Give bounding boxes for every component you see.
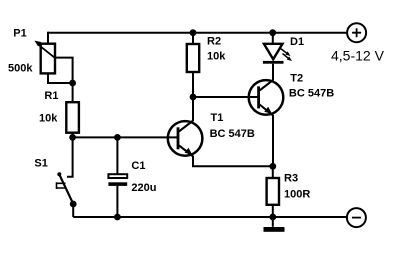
wire R1 bottom to S1: [67, 133, 73, 177]
svg-text:100R: 100R: [284, 188, 310, 200]
svg-text:P1: P1: [13, 28, 26, 40]
svg-text:D1: D1: [290, 36, 304, 48]
node E junction dot: [269, 163, 276, 170]
junction dot D1 at top rail: [269, 29, 276, 36]
svg-text:BC 547B: BC 547B: [289, 88, 334, 100]
switch S1 actuator: [57, 182, 67, 189]
node D junction dot: [190, 94, 197, 101]
terminal plus: [347, 23, 366, 42]
wire T2 emitter to node E: [272, 115, 274, 166]
svg-text:500k: 500k: [8, 62, 33, 74]
svg-text:T1: T1: [211, 112, 224, 124]
svg-text:R1: R1: [44, 90, 58, 102]
wire T1 collector up to node D: [192, 97, 194, 121]
node B junction dot (base wire tee): [69, 134, 76, 141]
wire R3 bottom to bottom rail: [272, 205, 274, 217]
node A junction dot: [69, 80, 76, 87]
LED D1: [263, 44, 292, 64]
ground: [264, 217, 285, 232]
wire top rail to R2: [192, 33, 194, 44]
svg-text:4,5-12 V: 4,5-12 V: [331, 47, 385, 63]
wire T1 emitter to node E: [193, 156, 273, 166]
svg-text:10k: 10k: [39, 113, 58, 125]
wire node C to C1: [116, 137, 118, 174]
svg-text:R2: R2: [207, 35, 221, 47]
wire P1 wiper to node A: [55, 58, 73, 83]
wire D1 to T2 collector: [272, 64, 274, 81]
switch S1 lever: [59, 174, 73, 204]
svg-text:C1: C1: [131, 160, 145, 172]
transistor T2: [249, 80, 284, 115]
resistor R3: [267, 178, 279, 205]
wire top rail: [48, 32, 347, 34]
junction dot R2 at top rail: [190, 29, 197, 36]
resistor R1: [66, 102, 79, 133]
switch S1 bottom junction dot: [70, 201, 77, 208]
wire node E to R3: [272, 166, 274, 178]
svg-text:R3: R3: [284, 172, 298, 184]
wire top rail to D1: [272, 33, 274, 44]
wire S1 to bottom rail: [72, 204, 74, 217]
capacitor C1: [108, 174, 127, 186]
svg-text:220u: 220u: [131, 182, 156, 194]
junction dot C1 at bottom rail: [114, 214, 121, 221]
wire bottom rail: [73, 216, 347, 218]
wire node A to R1: [72, 83, 74, 102]
svg-text:10k: 10k: [207, 51, 226, 63]
potentiometer P1: [34, 41, 55, 74]
svg-text:BC 547B: BC 547B: [210, 128, 255, 140]
wire R2 bottom to node D: [192, 72, 194, 97]
wire base line node B to T1 base: [73, 136, 178, 138]
wire C1 bottom to bottom rail: [116, 186, 118, 217]
wire P1 bottom leg: [48, 73, 73, 83]
junction dot R3 at bottom rail: [269, 214, 276, 221]
svg-text:T2: T2: [290, 72, 303, 84]
wire P1 top leg: [47, 32, 49, 44]
svg-text:S1: S1: [34, 157, 47, 169]
resistor R2: [187, 44, 199, 72]
wire node D to T2 base: [193, 96, 258, 98]
terminal minus: [347, 208, 366, 227]
node C junction dot (C1 tee): [114, 134, 121, 141]
transistor T1: [168, 121, 203, 157]
